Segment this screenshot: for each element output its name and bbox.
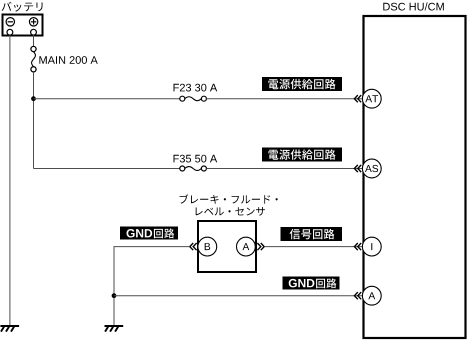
label ブレーキ・フルード・ (sensor name line 1) xyxy=(180,194,278,203)
ground battery negative xyxy=(0,326,19,332)
fuse F35 50 A xyxy=(180,166,207,171)
label バッテリ (battery) xyxy=(2,2,43,12)
terminal AT xyxy=(362,89,381,108)
junction battery positive node xyxy=(31,96,36,101)
DSC HU/CM module xyxy=(364,16,466,338)
wire battery positive to fusible link xyxy=(33,35,35,46)
fuse F23 30 A xyxy=(180,96,207,101)
label GND回路 (ground circuit) at sensor xyxy=(120,227,178,240)
wire ground junction to DSC terminal A xyxy=(114,295,363,297)
junction ground node xyxy=(112,293,117,298)
label GND回路 (ground circuit) at DSC xyxy=(283,277,340,290)
sensor terminal A xyxy=(237,237,256,256)
terminal AS xyxy=(362,159,381,178)
label 電源供給回路 (power supply circuit) row 2 xyxy=(262,148,342,162)
label MAIN 200 A xyxy=(39,56,97,64)
battery xyxy=(3,15,43,36)
wire sensor A to DSC terminal I (signal) xyxy=(264,246,362,248)
label DSC HU/CM xyxy=(383,2,444,10)
connector chevrons at terminal AT xyxy=(354,95,361,102)
wire battery negative to ground xyxy=(9,35,11,325)
terminal A xyxy=(362,286,381,305)
connector chevrons at terminal AS xyxy=(354,165,361,172)
sensor terminal B xyxy=(198,237,217,256)
wire fuse F35 to DSC terminal AS xyxy=(206,168,362,170)
wire branch to fuse F35 xyxy=(34,168,180,170)
label F35 50 A xyxy=(174,155,218,163)
connector chevrons at sensor B xyxy=(190,243,197,250)
wire fuse F23 to DSC terminal AT xyxy=(206,98,362,100)
connector chevrons at terminal A xyxy=(354,292,361,299)
brake fluid level sensor xyxy=(198,221,256,272)
wire sensor B to ground run xyxy=(114,247,190,326)
connector chevrons at sensor A xyxy=(257,243,264,250)
wire junction to fuse F23 xyxy=(34,98,180,100)
label F23 30 A xyxy=(174,84,218,92)
label 電源供給回路 (power supply circuit) row 1 xyxy=(262,77,342,91)
ground sensor/DSC ground point xyxy=(105,326,124,332)
terminal I xyxy=(362,237,381,256)
label 信号回路 (signal circuit) xyxy=(281,227,343,241)
label レベル・センサ (sensor name line 2) xyxy=(196,207,265,216)
wire fusible link to F35 branch xyxy=(33,72,35,169)
connector chevrons at terminal I xyxy=(354,243,361,250)
fusible link MAIN 200 A xyxy=(31,46,36,72)
